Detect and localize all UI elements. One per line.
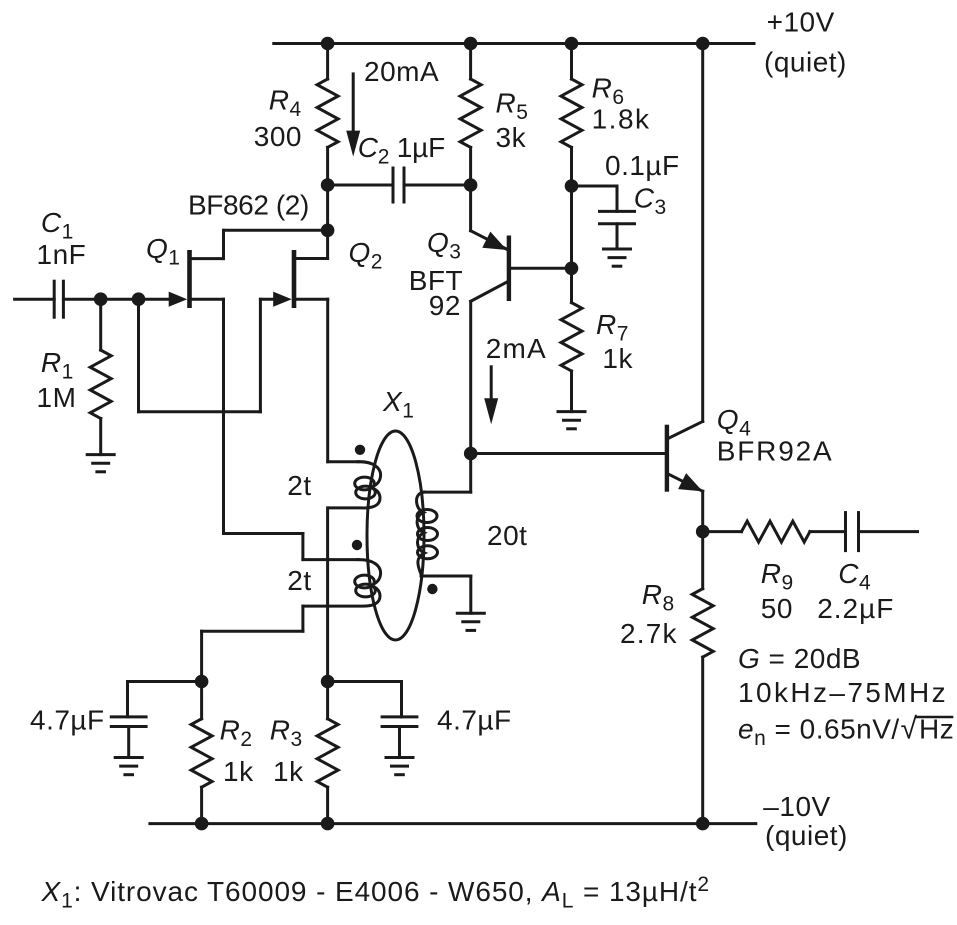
- svg-text:–10V: –10V: [763, 791, 830, 822]
- svg-text:50: 50: [761, 593, 793, 624]
- svg-text:20t: 20t: [487, 520, 527, 551]
- svg-text:4.7µF: 4.7µF: [437, 704, 512, 735]
- svg-text:2.7k: 2.7k: [620, 618, 678, 649]
- svg-text:BFR92A: BFR92A: [717, 436, 834, 467]
- svg-text:G = 20dB: G = 20dB: [738, 643, 861, 674]
- svg-text:0.1µF: 0.1µF: [605, 150, 680, 181]
- svg-text:2.2µF: 2.2µF: [817, 593, 894, 624]
- svg-text:Hz: Hz: [919, 714, 954, 745]
- svg-text:3k: 3k: [496, 122, 527, 153]
- svg-text:300: 300: [254, 121, 302, 152]
- svg-text:(quiet): (quiet): [765, 820, 848, 851]
- svg-text:4.7µF: 4.7µF: [30, 704, 105, 735]
- svg-text:BF862 (2): BF862 (2): [188, 190, 309, 221]
- svg-text:X1: Vitrovac T60009 - E4006 -: X1: Vitrovac T60009 - E4006 - W650, AL =…: [41, 873, 711, 913]
- svg-text:2t: 2t: [287, 470, 311, 501]
- svg-text:1k: 1k: [273, 756, 304, 787]
- svg-text:√: √: [901, 713, 918, 746]
- svg-text:1k: 1k: [602, 343, 633, 374]
- svg-text:2t: 2t: [287, 565, 311, 596]
- svg-text:1nF: 1nF: [37, 239, 87, 270]
- svg-text:1k: 1k: [223, 756, 254, 787]
- svg-text:20mA: 20mA: [364, 56, 439, 87]
- svg-text:(quiet): (quiet): [764, 46, 847, 77]
- svg-text:2mA: 2mA: [486, 333, 547, 364]
- svg-text:10kHz–75MHz: 10kHz–75MHz: [738, 677, 948, 708]
- svg-text:92: 92: [429, 290, 461, 321]
- svg-text:1M: 1M: [37, 382, 77, 413]
- svg-text:1.8k: 1.8k: [592, 104, 651, 135]
- svg-text:+10V: +10V: [767, 7, 835, 38]
